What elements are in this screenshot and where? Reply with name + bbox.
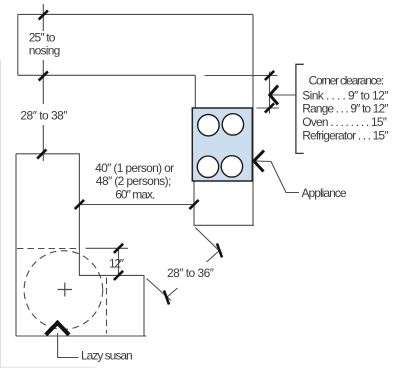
extension diagonal from under-range counter corner: [195, 228, 222, 254]
tick corner clearance bottom: [265, 103, 274, 112]
tick 60max left: [75, 200, 84, 209]
burner top-left: [198, 115, 219, 136]
counter box below range: [194, 182, 254, 226]
arrow corner clearance: [270, 86, 278, 105]
leader appliance: [256, 161, 299, 193]
scan edge artifact left: [0, 60, 2, 368]
arrow appliance: [254, 151, 264, 172]
tick 25 nosing top: [39, 10, 48, 19]
svg-text:25″ to: 25″ to: [29, 31, 56, 45]
tick 28-36 upper: [217, 244, 222, 258]
counter corner vertical above range: [194, 75, 196, 108]
svg-text:Range . . . 9″ to 12″: Range . . . 9″ to 12″: [302, 102, 389, 116]
lazy susan center cross: [58, 283, 73, 297]
counter edge upper: [18, 74, 196, 76]
extension diagonal from lower-left counter corner: [147, 279, 172, 301]
svg-text:60″ max.: 60″ max.: [115, 187, 155, 201]
dimension line 25in-to-nosing / 28-38 vertical: [42, 4, 44, 161]
svg-text:28″ to 36″: 28″ to 36″: [167, 266, 215, 280]
svg-text:Oven . . . . . . . . 15″: Oven . . . . . . . . 15″: [302, 115, 388, 129]
burner bottom-left: [197, 156, 218, 177]
extension line wall to corner tick: [205, 75, 278, 77]
bracket corner clearance list: [296, 64, 304, 153]
lower-left counter outline: [16, 154, 147, 336]
extension line range top right: [257, 107, 280, 109]
svg-text:28″ to 38″: 28″ to 38″: [20, 108, 68, 122]
svg-text:Lazy susan: Lazy susan: [81, 349, 133, 363]
dashed cabinet line vertical: [106, 278, 108, 334]
wall right: [252, 14, 254, 225]
svg-text:nosing: nosing: [29, 44, 61, 58]
dashed cabinet line horizontal: [17, 248, 79, 250]
svg-text:48″ (2 persons);: 48″ (2 persons);: [96, 174, 171, 188]
svg-text:12″: 12″: [109, 256, 125, 270]
dimension line 28-36 diagonal: [207, 251, 220, 263]
dimension line 60in max horizontal: [79, 204, 194, 206]
dimension line 12in vertical: [118, 248, 120, 275]
leader lazy susan: [58, 333, 79, 358]
svg-text:Appliance: Appliance: [302, 186, 347, 200]
extension line 12in top: [86, 247, 128, 249]
tick 12in bottom: [114, 271, 123, 280]
lazy susan dashed circle: [24, 251, 103, 330]
svg-text:40″ (1 person) or: 40″ (1 person) or: [95, 161, 174, 175]
scan edge artifact bottom: [0, 366, 95, 368]
burner bottom-right: [221, 156, 242, 177]
wall upper-left vertical: [17, 14, 19, 75]
tick 12in top: [114, 244, 123, 253]
burner top-right: [222, 114, 243, 135]
tick 28-36 lower: [164, 291, 169, 305]
tick at counter edge: [39, 71, 48, 80]
tick corner clearance top: [265, 71, 274, 80]
svg-text:Refrigerator . . . 15″: Refrigerator . . . 15″: [302, 129, 389, 143]
svg-text:Sink . . . . 9″ to 12″: Sink . . . . 9″ to 12″: [302, 88, 389, 102]
tick 60max right: [189, 200, 198, 209]
wall top: [18, 13, 253, 15]
arrow lazy susan: [46, 323, 69, 335]
leader corner clearance to bracket: [270, 94, 296, 96]
dimension line corner clearance vertical: [269, 72, 271, 114]
svg-text:Corner clearance:: Corner clearance:: [309, 74, 385, 88]
range appliance blue top: [192, 108, 252, 181]
tick at lower counter top: [37, 149, 46, 158]
